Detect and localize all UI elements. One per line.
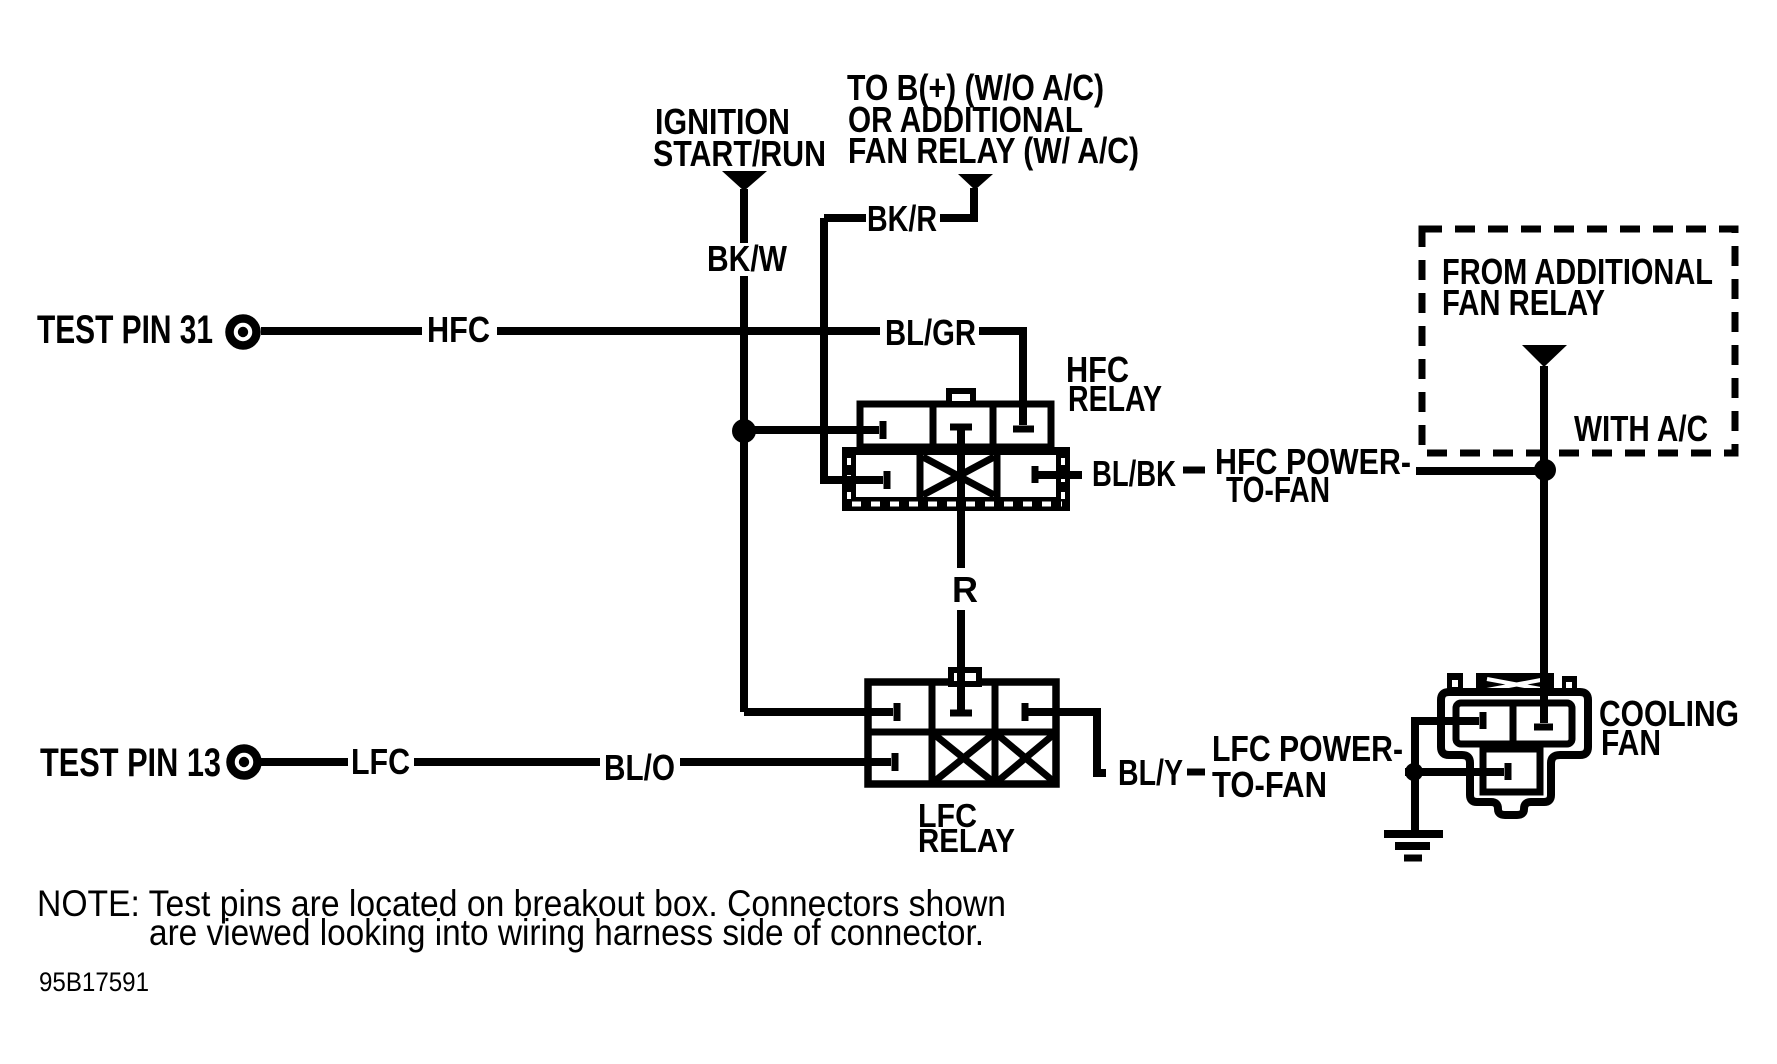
wire LFC relay output to BL/Y (1025, 712, 1106, 773)
svg-text:FAN RELAY (W/ A/C): FAN RELAY (W/ A/C) (848, 130, 1139, 171)
svg-text:TO-FAN: TO-FAN (1226, 469, 1330, 510)
cooling fan connector outline (1441, 692, 1588, 815)
relay HFC upper connector box (860, 404, 1051, 447)
wire HFC label to BL/GR label (497, 327, 880, 335)
svg-text:LFC POWER-: LFC POWER- (1212, 728, 1403, 769)
pin bar HFC lower-left (884, 471, 891, 489)
svg-text:LFC: LFC (351, 741, 410, 782)
svg-text:TEST PIN 31: TEST PIN 31 (37, 308, 213, 352)
test pin 13 connector circle (231, 749, 258, 776)
cooling fan connector hatched lock tab (1476, 673, 1554, 697)
pin bar LFC upper-right (1022, 703, 1029, 721)
triangle connector TO B(+) (958, 174, 993, 190)
pin bar HFC center R (950, 424, 972, 431)
svg-text:HFC: HFC (427, 309, 490, 350)
pin bar fan upper-right (1534, 724, 1553, 731)
wire BK/W into LFC relay pin (744, 708, 893, 716)
wire LFC power to fan lower pin (1405, 768, 1504, 776)
wire row1 TEST PIN 31 to HFC label (261, 327, 422, 335)
cooling fan connector upper cavity (1456, 703, 1572, 744)
svg-text:TEST PIN 13: TEST PIN 13 (40, 741, 221, 785)
svg-text:R: R (952, 569, 978, 610)
cooling fan connector lower cavity (1483, 749, 1540, 792)
svg-text:BL/Y: BL/Y (1118, 752, 1183, 793)
svg-text:FAN: FAN (1601, 722, 1661, 763)
wire BK/R down into HFC relay pin (824, 218, 883, 480)
triangle connector FROM ADDITIONAL FAN RELAY (1522, 345, 1567, 367)
pin bar LFC center R (950, 710, 972, 717)
svg-text:WITH A/C: WITH A/C (1574, 408, 1708, 449)
ground symbol (1384, 830, 1443, 838)
pin bar fan upper-left (1480, 712, 1487, 729)
junction dot with A/C (1534, 459, 1556, 481)
svg-text:RELAY: RELAY (918, 822, 1015, 859)
svg-text:95B17591: 95B17591 (39, 967, 149, 997)
pin bar HFC lower-right BL/BK (1032, 466, 1039, 483)
pin bar fan lower (1505, 763, 1512, 780)
wire junction branch into HFC relay upper-left pin (744, 426, 879, 434)
pin bar HFC upper-right BL/GR (1013, 426, 1034, 433)
wire R lower segment into LFC tab (957, 610, 965, 710)
wire HFC relay output to BL/BK (1035, 471, 1082, 479)
junction dot at fan ground wire (1405, 763, 1423, 781)
relay LFC connector box (868, 682, 1056, 784)
relay LFC coil X cell right (998, 735, 1053, 781)
junction dot BK/W branch (732, 419, 756, 443)
pin bar LFC lower-left (892, 753, 899, 771)
wire LFC label to BL/O label (414, 758, 600, 766)
dashed box FROM ADDITIONAL FAN RELAY (1422, 229, 1735, 453)
relay LFC cell dividers (868, 682, 1056, 784)
svg-text:TO-FAN: TO-FAN (1212, 764, 1327, 805)
wire BK/W vertical upper segment (740, 189, 748, 243)
wire BL/O into LFC relay pin (680, 758, 891, 766)
relay LFC top tab (951, 670, 979, 684)
svg-text:BK/R: BK/R (867, 198, 937, 239)
cooling fan connector left ear (1447, 673, 1463, 692)
relay LFC coil X cell center (935, 735, 992, 781)
wire from dashed box triangle down to fan pin (1540, 366, 1548, 723)
test pin 31 connector circle (230, 319, 257, 346)
svg-text:are viewed looking into wiring: are viewed looking into wiring harness s… (149, 912, 984, 953)
svg-text:BL/GR: BL/GR (885, 312, 976, 353)
wire R upper segment (957, 427, 965, 568)
relay HFC upper box cell dividers (933, 404, 993, 447)
dash after BL/Y (1187, 769, 1205, 776)
cooling fan connector right ear (1562, 676, 1577, 694)
triangle connector IGNITION (722, 171, 767, 191)
wire row2 TEST PIN 13 to LFC label (258, 758, 348, 766)
svg-text:BL/O: BL/O (604, 747, 675, 788)
wire BK/R elbow right of label (940, 188, 974, 218)
svg-text:BK/W: BK/W (707, 238, 787, 279)
svg-text:RELAY: RELAY (1068, 378, 1162, 419)
pin bar LFC upper-left (894, 703, 901, 721)
wire BK/W vertical lower segment (740, 276, 748, 712)
pin bar HFC upper-left (880, 421, 887, 439)
relay HFC lower box cell dividers (920, 455, 997, 497)
dash after BL/BK (1183, 467, 1205, 474)
wire fan ground leg (1415, 721, 1479, 831)
relay HFC coil X cell (923, 457, 994, 495)
wire BL/GR label to HFC relay pin (979, 331, 1023, 425)
relay HFC lower connector box with hatched border (842, 447, 1070, 511)
svg-text:BL/BK: BL/BK (1092, 453, 1176, 494)
wire BK/R left of label (824, 214, 866, 222)
wire HFC POWER-TO-FAN right segment (1416, 467, 1540, 475)
svg-text:START/RUN: START/RUN (653, 133, 826, 174)
relay HFC top tab (949, 391, 973, 404)
svg-text:FAN RELAY: FAN RELAY (1442, 282, 1605, 323)
